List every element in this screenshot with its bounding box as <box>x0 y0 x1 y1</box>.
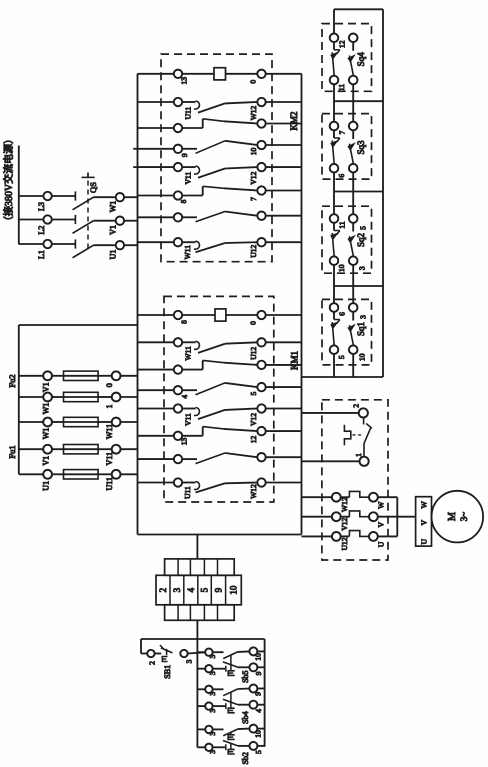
contact terminal left <box>174 455 182 463</box>
push button Sb2 NC blade <box>223 741 238 746</box>
contact fixed upper <box>182 166 195 168</box>
contactor KM1 dashed enclosure <box>164 296 274 502</box>
thermal relay FR heater zigzag <box>344 425 350 446</box>
contact blade upper <box>198 344 225 353</box>
svg-text:11: 11 <box>337 221 346 228</box>
contact terminal lower left <box>174 124 182 132</box>
limit switch Sq3 right terminal top <box>349 122 358 131</box>
node V11 fuse output <box>112 445 121 454</box>
svg-text:V11: V11 <box>184 413 193 426</box>
contact blade lower <box>182 127 203 129</box>
svg-text:W1: W1 <box>42 428 51 440</box>
contact terminal right <box>257 141 265 149</box>
node L1 <box>43 240 51 248</box>
limit switch Sq1 NC contact <box>333 312 335 320</box>
svg-text:6: 6 <box>337 312 346 316</box>
svg-text:3: 3 <box>208 709 217 713</box>
svg-text:9: 9 <box>214 587 224 592</box>
contactor coil <box>182 314 215 316</box>
wire coil row left <box>138 314 174 316</box>
contact blade lower <box>182 195 203 197</box>
svg-text:10: 10 <box>337 264 346 272</box>
push button Sb5 NO blade <box>223 652 237 659</box>
wire contact row left <box>138 216 174 218</box>
svg-text:Sb5: Sb5 <box>241 670 250 682</box>
wire W11 to panel <box>121 421 138 423</box>
wire feeder branch 5 <box>19 473 43 475</box>
node FR terminal 2 <box>359 408 368 417</box>
svg-text:L2: L2 <box>37 226 46 235</box>
push button Sb5 NO row terminals <box>197 651 205 653</box>
limit switch Sq2 left terminal bottom <box>330 256 339 265</box>
wire stub left of panel row V11 <box>133 166 137 168</box>
wire Sq4 to Sq3 right <box>352 84 354 122</box>
contact terminal V11 <box>174 404 182 412</box>
wire changeover lower left <box>138 369 174 371</box>
wire panel bottom bundle <box>138 534 302 536</box>
svg-text:U1: U1 <box>109 250 118 260</box>
push button Sb4 NC row terminals <box>197 705 205 707</box>
terminal strip upper small cells <box>165 559 235 575</box>
svg-text:11: 11 <box>337 84 346 91</box>
wire button left corner <box>140 639 142 654</box>
push button Sb4 NC blade <box>223 699 238 704</box>
contact terminal left <box>174 386 182 394</box>
node W1 fuse input <box>43 418 52 427</box>
wire Sq4-Sq3 boundary <box>334 100 383 102</box>
wire button left bus <box>196 652 198 747</box>
svg-text:3: 3 <box>208 671 217 675</box>
limit switch Sq2 right terminal bottom <box>349 256 358 265</box>
switch QS pole 2 blade <box>73 221 94 234</box>
wire QS pole 3 output <box>94 244 116 246</box>
contact blade lower <box>182 435 203 437</box>
svg-text:3: 3 <box>357 266 366 270</box>
svg-text:V11: V11 <box>105 452 114 465</box>
svg-text:U11: U11 <box>105 477 114 490</box>
svg-text:KM2: KM2 <box>289 111 299 130</box>
wire to L2 <box>19 219 44 221</box>
contact terminal V12 <box>257 404 265 412</box>
wire changeover upper right <box>266 101 302 103</box>
wire contact row right <box>266 456 302 458</box>
wire Sq3-Sq2 boundary <box>334 191 384 193</box>
svg-text:V1: V1 <box>42 382 51 392</box>
svg-text:1: 1 <box>105 405 114 409</box>
svg-text:W12: W12 <box>249 105 258 120</box>
wire panel left bundle <box>137 74 139 535</box>
contact terminal lower right <box>257 427 265 435</box>
svg-text:W1: W1 <box>42 403 51 415</box>
wire Sq4 to Sq3 left <box>333 84 335 122</box>
contact blade <box>196 483 226 492</box>
svg-text:U11: U11 <box>184 106 193 119</box>
contact terminal lower right <box>257 361 265 369</box>
limit switch Sq1 left terminal top <box>330 303 339 312</box>
wire feeder branch 2 <box>19 396 43 398</box>
svg-text:W1: W1 <box>109 201 118 213</box>
svg-text:V11: V11 <box>184 172 193 185</box>
wire W1 to panel <box>124 196 137 198</box>
wire Sq chain right edge <box>382 9 384 377</box>
contact terminal U12 <box>257 238 265 246</box>
wire contact row left <box>138 482 174 484</box>
node FR heater 3 right U <box>369 532 378 541</box>
limit switch Sq4 left terminal top <box>330 34 339 43</box>
contact terminal right <box>257 453 265 461</box>
svg-text:V1: V1 <box>42 456 51 466</box>
contact fixed upper <box>182 341 195 343</box>
wire contact row left <box>138 241 174 243</box>
contact terminal W11 <box>174 338 182 346</box>
switch QS linkage dashed line <box>87 181 89 251</box>
svg-text:U1: U1 <box>42 481 51 491</box>
wire feeder branch 1 <box>19 375 43 377</box>
svg-text:5: 5 <box>337 355 346 359</box>
wire panel to FR heater 1 <box>302 496 332 498</box>
svg-text:10: 10 <box>249 148 258 156</box>
push button SB1 left terminal 2 <box>147 650 154 657</box>
svg-text:W11: W11 <box>105 424 114 439</box>
svg-text:W12: W12 <box>340 497 349 512</box>
contact blade upper <box>198 410 225 419</box>
limit switch Sq4 right terminal bottom <box>349 76 358 85</box>
switch QS pole 1 fixed contact <box>52 195 75 197</box>
svg-text:L1: L1 <box>37 250 46 259</box>
svg-text:5: 5 <box>358 226 367 230</box>
node 1 fuse output <box>112 393 121 402</box>
thermal relay FR linkage dashes <box>353 434 362 436</box>
wire Sq2 to Sq1 right <box>352 265 354 303</box>
wire contact row right <box>266 482 302 484</box>
contact terminal W11 <box>174 238 182 246</box>
contact terminal right <box>257 383 265 391</box>
wire stub left of panel row 9 <box>133 148 137 150</box>
node U11 fuse output <box>112 470 121 479</box>
svg-text:0: 0 <box>249 321 258 325</box>
contactor coil terminal 13 <box>174 70 182 78</box>
svg-text:3: 3 <box>208 732 217 736</box>
push button Sb4 NO row terminals <box>197 688 205 690</box>
contact terminal V12 <box>257 163 265 171</box>
svg-text:Sq4: Sq4 <box>356 52 366 67</box>
contact fixed upper <box>182 408 195 410</box>
node FR heater 2 left V12 <box>332 512 341 521</box>
svg-text:3: 3 <box>208 654 217 658</box>
limit switch Sq4 dashed enclosure <box>322 24 372 92</box>
svg-text:V: V <box>376 521 385 527</box>
contactor coil terminal 0 <box>257 311 265 319</box>
contact terminal left <box>174 213 182 221</box>
svg-text:（接380V交流电源）: （接380V交流电源） <box>2 134 15 226</box>
limit switch Sq1 right terminal top <box>349 303 358 312</box>
contact terminal U11 <box>174 478 182 486</box>
svg-text:U12: U12 <box>340 537 349 550</box>
node FR heater 1 right W <box>369 493 378 502</box>
push button Sb2 NO blade <box>223 729 237 736</box>
contact terminal right <box>257 212 265 220</box>
fuse element row 1 <box>52 375 64 377</box>
wire Sq chain top edge <box>334 8 383 10</box>
terminal strip main cells 2 3 4 5 9 10 <box>156 575 241 605</box>
svg-text:3: 3 <box>184 659 193 663</box>
svg-text:5: 5 <box>200 587 210 592</box>
terminal strip lower small cells <box>165 605 235 621</box>
thermal relay FR dashed enclosure <box>322 400 388 560</box>
wire motor bundle to terminal box <box>397 516 415 518</box>
svg-text:SB1: SB1 <box>163 665 172 679</box>
limit switch Sq2 left terminal top <box>330 214 339 223</box>
limit switch Sq3 left terminal bottom <box>330 164 339 173</box>
svg-text:10: 10 <box>229 585 239 595</box>
limit switch Sq4 NO contact <box>352 42 354 51</box>
node U1 fuse input <box>43 470 52 479</box>
svg-text:13: 13 <box>180 77 189 85</box>
wire changeover lower right <box>266 364 302 366</box>
svg-text:W11: W11 <box>184 346 193 361</box>
svg-text:V1: V1 <box>109 225 118 235</box>
wire changeover upper left <box>138 341 174 343</box>
contact NO <box>182 458 197 460</box>
svg-text:7: 7 <box>337 130 346 134</box>
wire changeover upper left <box>138 408 174 410</box>
wire Sq1 bottom edge to panel <box>302 376 384 378</box>
svg-text:W: W <box>376 501 385 509</box>
svg-text:10: 10 <box>357 353 366 361</box>
wire Sq3 to Sq2 right <box>352 173 354 215</box>
wire strip to button bus <box>196 620 198 652</box>
svg-text:KM1: KM1 <box>289 351 299 370</box>
wire button right bus <box>264 639 266 747</box>
svg-text:0: 0 <box>249 80 258 84</box>
wire coil row right <box>266 73 302 75</box>
svg-text:Sq1: Sq1 <box>356 322 366 336</box>
push button Sb4 NO blade <box>223 689 237 696</box>
node V1 <box>116 217 124 225</box>
push button SB1 actuator <box>162 657 167 662</box>
contact terminal U12 <box>257 338 265 346</box>
svg-text:Sb2: Sb2 <box>241 752 250 764</box>
contact terminal lower right <box>257 186 265 194</box>
contact terminal lower left <box>174 191 182 199</box>
contact terminal lower left <box>174 365 182 373</box>
svg-text:2: 2 <box>352 404 361 408</box>
contact fixed with hook <box>182 241 195 243</box>
svg-text:U11: U11 <box>183 486 192 499</box>
wire changeover lower left <box>138 435 174 437</box>
svg-text:W: W <box>420 500 429 508</box>
wire button top bus <box>141 638 265 640</box>
svg-text:9: 9 <box>254 671 263 675</box>
node L2 <box>43 215 51 223</box>
wire changeover upper left <box>138 101 174 103</box>
svg-text:4: 4 <box>180 395 189 399</box>
wire U11 to panel <box>121 473 138 475</box>
wire SB1 to row bus <box>188 652 206 653</box>
contact NO <box>182 389 197 391</box>
node V1 fuse input <box>43 445 52 454</box>
svg-text:V: V <box>420 519 429 525</box>
svg-text:U: U <box>420 538 429 544</box>
contactor coil terminal 0 <box>257 70 265 78</box>
wire contact row left <box>138 148 174 150</box>
contact terminal lower left <box>174 432 182 440</box>
switch QS pole 2 fixed contact <box>52 219 75 221</box>
contact NO <box>182 216 197 218</box>
svg-text:8: 8 <box>179 199 188 203</box>
contact blade <box>196 243 226 252</box>
thermal relay heater element W <box>341 496 350 498</box>
contactor coil terminal 8 <box>174 311 182 319</box>
wire feeder branch 3 <box>19 421 43 423</box>
wire motor bundle vertical <box>396 497 398 536</box>
wire Sq2 to Sq1 left <box>333 265 335 303</box>
svg-text:3: 3 <box>358 315 367 319</box>
switch QS pole 3 fixed contact <box>52 243 75 245</box>
wire 0 to panel <box>121 375 138 377</box>
contact terminal W12 <box>257 98 265 106</box>
push button Sb4 plunger and actuator <box>230 693 232 708</box>
svg-text:V12: V12 <box>249 171 258 184</box>
node V1 fuse input <box>43 371 52 380</box>
svg-text:L3: L3 <box>37 202 46 211</box>
node FR heater 1 left W12 <box>332 493 341 502</box>
push button SB1 NC contact <box>155 653 162 655</box>
svg-text:2: 2 <box>158 588 168 593</box>
limit switch Sq2 dashed enclosure <box>322 206 372 273</box>
fuse element row 3 <box>52 421 64 423</box>
contact blade upper <box>198 169 225 178</box>
wire Sq1 left to bottom edge <box>333 354 335 377</box>
wire to L1 <box>19 243 44 245</box>
push button Sb2 plunger and actuator <box>230 733 232 735</box>
svg-text:8: 8 <box>180 320 189 324</box>
node L3 <box>43 192 51 200</box>
wire V11 to panel <box>121 448 138 450</box>
svg-text:7: 7 <box>249 197 258 201</box>
switch QS linkage bar <box>82 176 95 178</box>
svg-text:U: U <box>376 541 385 547</box>
wire panel bottom to terminal strip <box>196 535 198 559</box>
push button Sb2 NO row terminals <box>197 728 205 730</box>
svg-text:3: 3 <box>208 750 217 754</box>
contact terminal V11 <box>174 163 182 171</box>
contact blade upper <box>198 103 225 112</box>
wire Sq4 left drop <box>333 9 335 33</box>
wire Sq3 to Sq2 left <box>333 173 335 215</box>
svg-text:U12: U12 <box>249 347 258 360</box>
wire panel to FR heater 3 <box>302 535 332 537</box>
svg-text:3~: 3~ <box>459 512 469 522</box>
wire QS pole 1 output <box>94 196 116 198</box>
wire V1 to panel <box>124 220 137 222</box>
fuse element row 4 <box>52 448 64 450</box>
svg-text:6: 6 <box>337 174 346 178</box>
contact terminal lower right <box>257 119 265 127</box>
wire contact row right <box>266 241 302 243</box>
wire coil row left <box>138 73 174 75</box>
push button Sb5 plunger and actuator <box>230 655 232 670</box>
wire contact row right <box>266 144 302 146</box>
node W11 fuse output <box>112 418 121 427</box>
wire changeover upper right <box>266 166 302 168</box>
svg-text:12: 12 <box>337 40 346 48</box>
node FR terminal 1 <box>360 457 369 466</box>
svg-text:3: 3 <box>172 587 182 592</box>
wire panel to FR terminal 1 <box>302 460 360 462</box>
wire changeover upper left <box>138 166 174 168</box>
wire to L3 <box>19 195 44 197</box>
wire U1 to panel <box>124 244 137 246</box>
contact fixed upper <box>182 101 195 103</box>
fuse element row 2 <box>52 396 64 398</box>
svg-text:Sq3: Sq3 <box>356 140 366 155</box>
svg-text:2: 2 <box>148 661 157 665</box>
svg-text:10: 10 <box>254 730 263 738</box>
thermal relay heater element V <box>341 516 350 518</box>
svg-text:4: 4 <box>186 587 196 592</box>
wire Sq2-Sq1 boundary <box>333 285 383 287</box>
limit switch Sq1 right terminal bottom <box>349 345 358 354</box>
contact NO <box>182 148 197 150</box>
switch QS pole 1 blade <box>73 197 94 210</box>
wire contact row right <box>266 215 302 217</box>
svg-text:V12: V12 <box>249 413 258 426</box>
wire source bundle <box>18 146 20 245</box>
limit switch Sq3 left terminal top <box>330 122 339 131</box>
svg-text:W12: W12 <box>249 484 258 499</box>
wire Sq1 right to bottom edge <box>352 354 354 377</box>
wire changeover lower left <box>138 127 174 129</box>
wire changeover lower right <box>266 430 302 432</box>
svg-text:10: 10 <box>254 653 263 661</box>
node W1 fuse input <box>43 393 52 402</box>
contact terminal W12 <box>257 478 265 486</box>
contactor KM2 dashed enclosure <box>161 54 272 262</box>
svg-text:5: 5 <box>254 750 263 754</box>
limit switch Sq4 left terminal bottom <box>330 76 339 85</box>
wire panel to FR heater 2 <box>302 516 332 518</box>
svg-text:QS: QS <box>88 182 98 193</box>
switch QS pole 3 blade <box>73 245 94 258</box>
wire coil row right <box>266 314 302 316</box>
limit switch Sq1 dashed enclosure <box>322 299 372 365</box>
wire FR heater 2 to motor bundle <box>378 516 398 518</box>
node FR heater 2 right V <box>369 512 378 521</box>
wire feeder branch 4 <box>19 448 43 450</box>
limit switch Sq3 NO contact <box>352 130 354 139</box>
wire contact row left <box>138 458 174 460</box>
svg-text:5: 5 <box>249 391 258 395</box>
svg-text:4: 4 <box>254 709 263 713</box>
svg-text:Sq2: Sq2 <box>356 233 366 247</box>
node W1 <box>116 193 124 201</box>
svg-text:V12: V12 <box>340 517 349 530</box>
wire contact row left <box>138 389 174 391</box>
svg-text:M: M <box>447 512 458 521</box>
limit switch Sq3 right terminal bottom <box>349 164 358 173</box>
limit switch Sq4 NC contact <box>333 42 335 50</box>
motor M 3-phase <box>432 491 484 543</box>
push button SB1 right terminal 3 <box>180 650 187 657</box>
wire 1 to panel <box>121 396 138 398</box>
svg-text:13: 13 <box>180 438 189 446</box>
node FR heater 3 left U12 <box>332 532 341 541</box>
contact blade lower <box>182 369 203 371</box>
limit switch Sq3 dashed enclosure <box>322 114 372 180</box>
wire changeover lower right <box>266 190 302 192</box>
wire panel right bundle <box>301 74 303 535</box>
